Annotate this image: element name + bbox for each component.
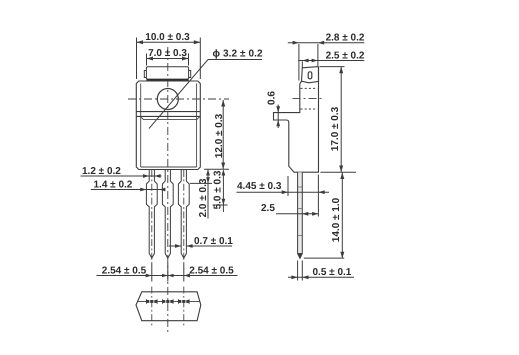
lead 3 front view bbox=[178, 170, 189, 259]
svg-text:2.54 ± 0.5: 2.54 ± 0.5 bbox=[102, 265, 147, 276]
svg-text:1.2 ± 0.2: 1.2 ± 0.2 bbox=[82, 166, 121, 177]
bottom view centerline lead3 bbox=[183, 287, 185, 328]
bottom view pad 2 bbox=[162, 299, 173, 304]
svg-text:2.0 ± 0.3: 2.0 ± 0.3 bbox=[198, 178, 209, 217]
bottom view pad 3 bbox=[178, 299, 189, 304]
bottom view pad 1 bbox=[146, 299, 157, 304]
dim 14.0 line bbox=[341, 173, 343, 259]
lead 3 centerline bbox=[183, 170, 185, 263]
dim 12.0 line bbox=[222, 100, 224, 169]
body inner bottom line bbox=[141, 166, 197, 168]
svg-text:4.45 ± 0.3: 4.45 ± 0.3 bbox=[237, 181, 282, 192]
dim 10.0 extension lines bbox=[136, 38, 138, 80]
dim 5.0 extension bbox=[213, 204, 228, 206]
svg-text:0.5 ± 0.1: 0.5 ± 0.1 bbox=[313, 267, 352, 278]
dim 2.0 extension bbox=[190, 182, 212, 184]
bottom view centerline lead1 bbox=[151, 287, 153, 328]
svg-text:5.0 ± 0.3: 5.0 ± 0.3 bbox=[213, 170, 224, 209]
dim 0.6 line bbox=[277, 105, 279, 129]
dim 7.0 line bbox=[147, 58, 189, 60]
svg-text:2.8 ± 0.2: 2.8 ± 0.2 bbox=[326, 33, 365, 44]
front face extension bbox=[317, 175, 319, 217]
body inner left line bbox=[140, 84, 142, 168]
dim 17.0 top extension bbox=[320, 66, 345, 68]
svg-text:ϕ 3.2 ± 0.2: ϕ 3.2 ± 0.2 bbox=[213, 49, 264, 60]
side view hole centerline bbox=[293, 97, 324, 99]
dim 2.8 line bbox=[288, 42, 365, 44]
dim 0.7 line left part bbox=[169, 245, 181, 247]
tab side bump left bbox=[144, 71, 146, 78]
side view tab slot bbox=[308, 72, 312, 79]
lead 1 centerline bbox=[151, 170, 153, 263]
bottom view chord line bbox=[138, 300, 200, 302]
tab side bump right bbox=[189, 71, 191, 78]
mounting hole bbox=[157, 89, 178, 110]
dim 2.5side line bbox=[276, 213, 318, 215]
lead joint mark 3 bbox=[298, 235, 303, 237]
svg-text:14.0 ± 1.0: 14.0 ± 1.0 bbox=[331, 197, 342, 242]
dim 1.2 line bbox=[81, 175, 162, 177]
dim 0.7 line right part bbox=[186, 245, 232, 247]
dim 12.0 bottom extension bbox=[204, 168, 229, 170]
dim 2.0 line bbox=[207, 169, 209, 218]
side view hidden hole line top bbox=[301, 87, 318, 89]
svg-text:0.7 ± 0.1: 0.7 ± 0.1 bbox=[194, 236, 233, 247]
side view lead bbox=[298, 172, 303, 258]
dim 5.0 line bbox=[222, 173, 224, 213]
dim 2.5 line bbox=[298, 60, 364, 62]
svg-text:2.5: 2.5 bbox=[261, 203, 275, 214]
lead joint mark 2 bbox=[298, 208, 303, 210]
svg-text:2.5 ± 0.2: 2.5 ± 0.2 bbox=[326, 51, 365, 62]
dim 0.5 extensions bbox=[297, 261, 299, 281]
lead 1 front view bbox=[146, 170, 157, 259]
front view vertical centerline bbox=[167, 47, 169, 333]
dim 2.54 extension lines bbox=[151, 263, 153, 282]
dim 10.0 line bbox=[137, 41, 201, 43]
body step line 2 bbox=[137, 115, 201, 117]
dim 2.5 extension bbox=[301, 61, 303, 67]
dim 0.5 line bbox=[288, 276, 354, 278]
body step line 3 with bevels bbox=[140, 116, 200, 119]
hole leader line bbox=[149, 60, 262, 129]
body step line 1 bbox=[137, 111, 201, 113]
tab bottom thick line bbox=[146, 79, 188, 81]
lead 2 front view bbox=[162, 170, 173, 259]
lead joint mark 1 bbox=[298, 186, 303, 188]
svg-text:1.4 ± 0.2: 1.4 ± 0.2 bbox=[94, 180, 133, 191]
dim 1.4 line bbox=[91, 189, 165, 191]
side view body outline bbox=[274, 67, 319, 172]
front view hole horizontal centerline bbox=[128, 98, 229, 100]
body inner right line bbox=[196, 84, 198, 168]
dim 7.0 extension lines bbox=[146, 54, 148, 66]
tab top front view bbox=[146, 67, 188, 80]
lead tip extension bbox=[304, 257, 344, 259]
side view hidden hole line bottom bbox=[301, 108, 318, 110]
svg-text:7.0 ± 0.3: 7.0 ± 0.3 bbox=[148, 48, 187, 59]
side view tab bbox=[302, 67, 319, 83]
dim 4.45 extension bbox=[287, 176, 289, 196]
svg-text:10.0 ± 0.3: 10.0 ± 0.3 bbox=[145, 32, 190, 43]
body bottom extension bbox=[321, 171, 357, 173]
svg-text:2.54 ± 0.5: 2.54 ± 0.5 bbox=[189, 265, 234, 276]
svg-text:17.0 ± 0.3: 17.0 ± 0.3 bbox=[330, 106, 341, 151]
dim 17.0 line bbox=[340, 67, 342, 172]
bottom view outline bbox=[136, 292, 201, 321]
svg-text:0.6: 0.6 bbox=[266, 91, 277, 105]
body outline front view bbox=[136, 81, 200, 170]
dim 4.45 line bbox=[237, 191, 330, 193]
dim 2.54 line bbox=[97, 275, 238, 277]
side view: dim 2.8 extensions bbox=[298, 44, 300, 81]
svg-text:12.0 ± 0.3: 12.0 ± 0.3 bbox=[214, 113, 225, 158]
